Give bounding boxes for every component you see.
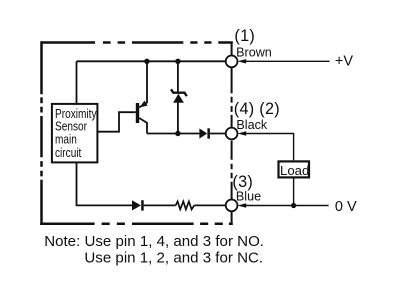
- transistor Q1 base bar: [136, 103, 139, 123]
- svg-text:Proximity: Proximity: [55, 108, 97, 121]
- svg-text:Brown: Brown: [236, 45, 272, 59]
- sensor enclosure dashed border: top edge: [41, 41, 232, 44]
- transistor Q1 emitter lead: [139, 61, 147, 107]
- svg-text:(3): (3): [232, 173, 253, 191]
- sensor enclosure dashed border: right edge through terminals: [231, 43, 233, 224]
- node: junction dot at zener top on top rail: [175, 59, 180, 64]
- wire: load wire from terminal 2 to load: [244, 134, 294, 161]
- wire: +V top rail: [77, 60, 226, 62]
- svg-text:Black: Black: [236, 118, 267, 132]
- node: junction dot zener/output wire: [175, 131, 180, 136]
- arrow into terminal 3: [238, 203, 247, 207]
- svg-text:main: main: [55, 134, 77, 147]
- load box: [279, 161, 310, 177]
- wire: black output from collector to diode: [147, 133, 199, 135]
- terminal (3) circle: [226, 200, 238, 212]
- sensor enclosure dashed border: left edge: [40, 41, 43, 225]
- wire: 0V rail with arrow into terminal 3: [244, 205, 329, 207]
- arrow into terminal 1: [238, 59, 247, 63]
- sensor enclosure dashed border: bottom edge: [40, 222, 233, 225]
- svg-text:Load: Load: [280, 163, 309, 178]
- wire: diode D1 to resistor: [144, 204, 176, 206]
- svg-text:Use pin 1, 2, and 3 for NC.: Use pin 1, 2, and 3 for NC.: [84, 249, 263, 266]
- transistor Q1 collector lead: [139, 118, 147, 134]
- proximity sensor main circuit box: [52, 104, 98, 162]
- node: junction dot at transistor emitter on top rail: [144, 59, 149, 64]
- wire: box bottom to lower branch corner: [77, 162, 133, 205]
- node: junction dot load/0V: [291, 203, 296, 208]
- zener diode ZD1 lead to output wire: [177, 103, 179, 134]
- transistor Q1 emitter arrow: [140, 101, 148, 108]
- wire: base lead from box to transistor: [97, 112, 135, 132]
- diode D2 cathode bar: [207, 128, 210, 138]
- terminal (1) circle: [226, 56, 238, 68]
- terminal (4)(2) circle: [226, 128, 238, 140]
- diode D1 cathode bar: [141, 200, 144, 210]
- wire: load to 0V rail: [293, 178, 295, 205]
- zener diode ZD1 lead from top rail: [177, 61, 179, 92]
- diode D2 triangle (output): [199, 128, 207, 138]
- zener diode ZD1 triangle: [173, 94, 184, 103]
- zener diode ZD1 cathode bar with wings: [171, 89, 187, 96]
- svg-text:0 V: 0 V: [335, 199, 357, 215]
- diode D1 triangle (lower branch): [132, 200, 141, 210]
- svg-text:(4) (2): (4) (2): [234, 100, 280, 118]
- wire: diode to terminal 2: [210, 133, 226, 135]
- wire: resistor to terminal 3: [194, 204, 226, 206]
- resistor R1: [176, 201, 195, 209]
- label: box text: [55, 108, 97, 160]
- svg-text:(1): (1): [234, 27, 255, 45]
- svg-text:Blue: Blue: [236, 189, 261, 203]
- wire: vertical from top rail to main circuit box: [76, 61, 78, 103]
- svg-text:Sensor: Sensor: [55, 121, 87, 134]
- svg-text:circuit: circuit: [55, 147, 82, 160]
- wire: +V supply with arrow into terminal 1: [244, 60, 330, 62]
- svg-text:Note: Use pin 1, 4, and 3 for: Note: Use pin 1, 4, and 3 for NO.: [44, 233, 264, 250]
- svg-text:+V: +V: [335, 53, 353, 69]
- arrow into terminal 2: [238, 131, 247, 135]
